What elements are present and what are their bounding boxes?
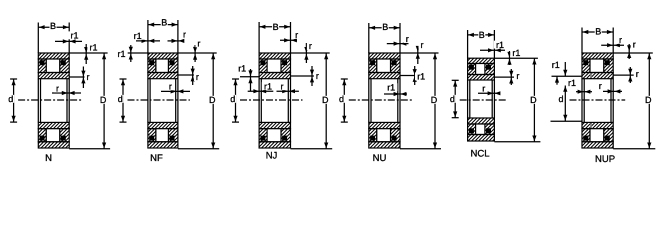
svg-text:NJ: NJ [266, 151, 278, 162]
svg-text:B: B [382, 22, 388, 32]
svg-text:d: d [8, 94, 13, 104]
svg-text:r: r [309, 41, 312, 51]
svg-text:r: r [183, 29, 186, 39]
svg-text:N: N [45, 153, 52, 164]
svg-text:r1: r1 [264, 81, 272, 91]
svg-text:r: r [516, 71, 519, 81]
svg-text:B: B [595, 26, 601, 36]
svg-text:r1: r1 [134, 31, 142, 41]
svg-text:r: r [281, 81, 284, 91]
svg-text:r1: r1 [70, 31, 78, 41]
svg-text:r: r [633, 40, 636, 50]
svg-text:r: r [87, 72, 90, 82]
svg-text:D: D [322, 95, 329, 105]
svg-text:r: r [295, 30, 298, 40]
svg-text:r1: r1 [496, 40, 504, 50]
svg-text:r: r [421, 40, 424, 50]
svg-text:D: D [645, 95, 652, 105]
svg-text:NF: NF [150, 153, 163, 164]
svg-text:r1: r1 [387, 82, 395, 92]
svg-text:r: r [197, 39, 200, 49]
svg-text:D: D [100, 95, 107, 105]
svg-text:r1: r1 [89, 42, 97, 52]
svg-text:r1: r1 [568, 78, 576, 88]
svg-text:d: d [118, 94, 123, 104]
svg-text:r1: r1 [117, 49, 125, 59]
svg-text:r: r [56, 84, 59, 94]
svg-text:NCL: NCL [470, 149, 489, 160]
svg-text:B: B [50, 21, 56, 31]
svg-text:r: r [599, 81, 602, 91]
svg-text:r: r [482, 84, 485, 94]
svg-text:r1: r1 [552, 60, 560, 70]
svg-text:B: B [161, 18, 167, 28]
svg-text:d: d [558, 94, 563, 104]
svg-text:B: B [479, 30, 485, 40]
svg-text:r: r [316, 71, 319, 81]
svg-text:r: r [169, 82, 172, 92]
svg-text:D: D [209, 95, 216, 105]
svg-text:r: r [406, 34, 409, 44]
svg-text:r1: r1 [512, 48, 520, 58]
svg-text:r: r [196, 72, 199, 82]
svg-text:r1: r1 [417, 72, 425, 82]
svg-text:d: d [230, 94, 235, 104]
svg-text:r1: r1 [238, 64, 246, 74]
svg-text:D: D [431, 95, 438, 105]
svg-text:d: d [339, 94, 344, 104]
svg-text:B: B [273, 22, 279, 32]
svg-text:d: d [450, 94, 455, 104]
svg-text:r: r [636, 69, 639, 79]
svg-text:NU: NU [373, 153, 387, 164]
svg-text:NUP: NUP [595, 154, 615, 165]
svg-text:r: r [619, 35, 622, 45]
svg-text:D: D [530, 95, 537, 105]
